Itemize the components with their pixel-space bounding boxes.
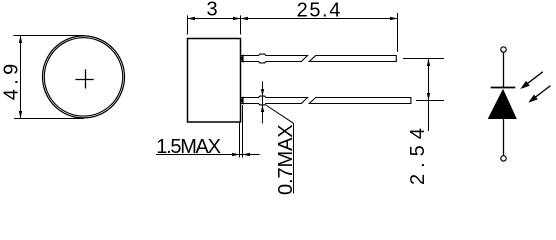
dim 0.7MAX arrow up [261,105,264,112]
lead 1 (top) inner segment with crimp [241,54,308,63]
top-view package circle outer [43,36,125,118]
dim 4.9 arrow up [19,36,22,44]
svg-text:25.4: 25.4 [297,0,342,21]
dim 0.7MAX dimension line vertical [262,81,264,123]
dim 0.7MAX leader line [266,105,294,194]
svg-text:1.5MAX: 1.5MAX [156,136,220,158]
photodiode symbol: top terminal circle [501,47,506,52]
center cross vertical [85,69,87,88]
dim 2.54 extension line bottom [416,100,444,102]
photodiode symbol: cathode lead line [503,52,505,87]
lead 2 exit wedge [240,96,243,105]
dim 3 extension line left [187,15,189,34]
center cross horizontal [75,79,93,81]
photodiode symbol: triangle [488,89,517,119]
svg-text:4.9: 4.9 [0,59,22,100]
dim 3 arrow left [188,17,196,20]
svg-text:2.54: 2.54 [407,122,429,185]
dim 4.9 dimension line [20,36,22,119]
dim 1.5MAX arrow pointing right [232,153,240,156]
lead 2 (bottom) outer segment after break [309,98,411,104]
dim 1.5MAX extension line left (body edge) [239,122,241,157]
dim 1.5MAX dimension line [156,154,260,156]
dim 4.9 extension line bottom [14,118,84,120]
dim 1.5MAX arrow pointing left [243,153,251,156]
lead 1 exit wedge [240,54,243,63]
dim 3 / 25.4 shared extension line [240,15,242,34]
body outline (side view) [188,39,241,123]
dim 3 dimension line [188,18,241,20]
lead 1 (top) outer segment after break [309,56,396,62]
dim 3 arrow right [233,17,241,20]
dim 25.4 arrow right [390,17,398,20]
dim 2.54 arrow down [427,93,430,101]
dim 4.9 extension line top [13,35,84,37]
dim 0.7MAX arrow down [261,89,264,96]
dim 1.5MAX extension line right [242,105,244,158]
photodiode symbol: anode lead line [503,119,505,156]
dim 25.4 arrow left [241,17,249,20]
svg-text:3: 3 [207,0,218,21]
photodiode symbol: cathode bar [491,87,516,89]
dim 25.4 dimension line [241,18,398,20]
light arrow 2 shaft [535,86,550,98]
lead 2 (bottom) inner segment with crimp [241,96,308,105]
photodiode symbol: bottom terminal circle [501,156,506,161]
dim 2.54 arrow up [427,59,430,67]
top-view package circle inner [44,38,122,116]
dim 25.4 extension line right [397,13,399,52]
dim 2.54 extension line top [403,58,444,60]
dim 2.54 dimension line [428,59,430,132]
light arrow 1 head [520,81,530,89]
light arrow 2 head [528,95,538,103]
dim 4.9 arrow down [19,111,22,119]
light arrow 1 shaft [527,72,543,84]
svg-text:0.7MAX: 0.7MAX [275,124,297,195]
